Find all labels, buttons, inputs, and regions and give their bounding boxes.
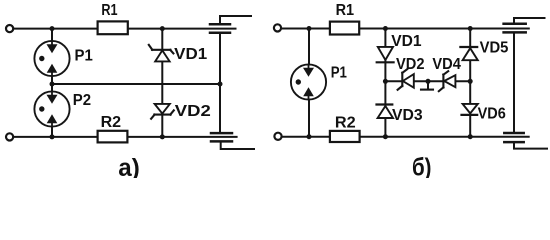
svg-text:VD5: VD5 [480,39,509,56]
svg-text:R2: R2 [101,114,122,131]
svg-text:R1: R1 [101,2,117,19]
svg-text:VD3: VD3 [392,107,423,124]
svg-text:R2: R2 [335,114,356,131]
svg-text:VD2: VD2 [396,56,425,73]
svg-text:P1: P1 [331,65,347,82]
svg-text:а): а) [118,154,140,178]
svg-text:б): б) [412,153,432,178]
svg-text:P1: P1 [75,48,93,65]
svg-text:R1: R1 [336,2,355,19]
svg-text:VD4: VD4 [432,56,461,73]
svg-text:P2: P2 [73,92,91,109]
svg-text:VD6: VD6 [478,106,506,123]
svg-text:VD2: VD2 [175,103,211,120]
svg-text:VD1: VD1 [391,33,421,50]
svg-text:VD1: VD1 [174,46,207,63]
